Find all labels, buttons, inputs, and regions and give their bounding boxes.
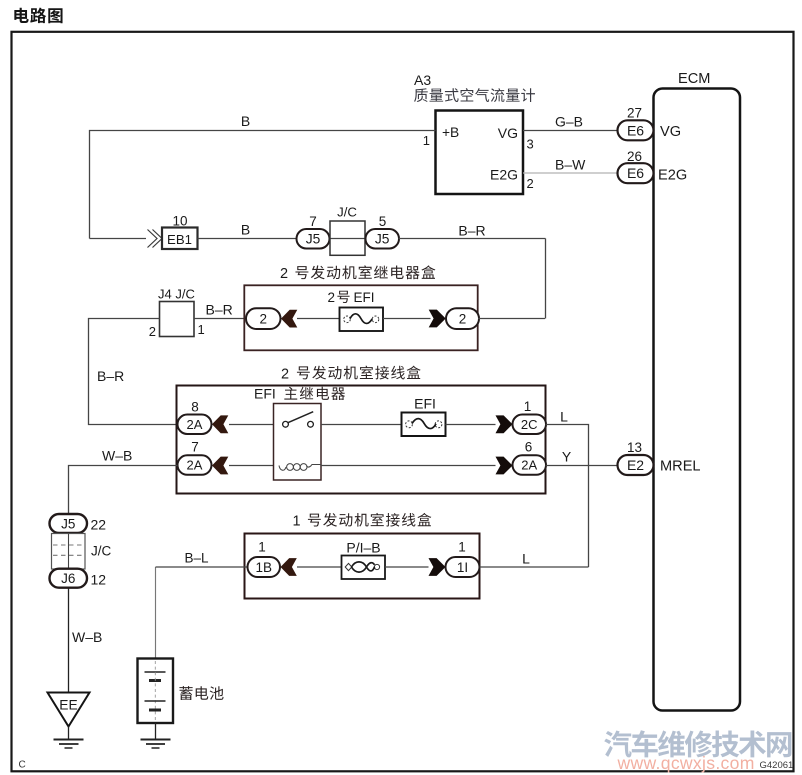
svg-text:EFI: EFI xyxy=(254,386,276,402)
svg-text:2: 2 xyxy=(149,324,156,339)
svg-text:Y: Y xyxy=(562,449,572,465)
svg-text:L: L xyxy=(560,409,568,425)
svg-text:B–L: B–L xyxy=(185,551,210,566)
svg-text:5: 5 xyxy=(379,214,387,229)
svg-text:J6: J6 xyxy=(61,571,75,586)
svg-text:G42061: G42061 xyxy=(760,760,794,771)
svg-text:1: 1 xyxy=(258,540,266,555)
svg-text:J/C: J/C xyxy=(337,205,357,220)
svg-text:26: 26 xyxy=(627,149,642,164)
svg-text:P/I–B: P/I–B xyxy=(346,540,380,556)
svg-text:3: 3 xyxy=(527,137,534,152)
svg-text:B–W: B–W xyxy=(555,157,586,173)
svg-text:VG: VG xyxy=(660,124,681,140)
svg-text:W–B: W–B xyxy=(102,448,132,464)
svg-text:J5: J5 xyxy=(375,232,390,247)
svg-text:12: 12 xyxy=(91,572,107,588)
svg-text:E2G: E2G xyxy=(490,167,518,183)
svg-text:J5: J5 xyxy=(306,232,321,247)
svg-text:2: 2 xyxy=(527,176,534,191)
svg-text:E2: E2 xyxy=(627,457,644,473)
svg-text:2A: 2A xyxy=(187,417,203,432)
svg-text:2: 2 xyxy=(328,290,336,305)
svg-text:G–B: G–B xyxy=(555,114,583,130)
svg-text:E6: E6 xyxy=(627,122,644,138)
svg-text:www.qcwxjs.com: www.qcwxjs.com xyxy=(617,753,755,773)
svg-text:C: C xyxy=(19,760,26,771)
svg-text:1: 1 xyxy=(198,322,205,337)
svg-text:E6: E6 xyxy=(627,165,644,181)
svg-text:1: 1 xyxy=(293,514,301,530)
svg-text:2A: 2A xyxy=(521,458,537,473)
svg-text:B–R: B–R xyxy=(97,368,124,384)
svg-text:2: 2 xyxy=(281,367,289,383)
svg-text:L: L xyxy=(522,551,530,567)
svg-text:W–B: W–B xyxy=(72,629,102,645)
svg-text:J4 J/C: J4 J/C xyxy=(158,287,195,302)
svg-text:B: B xyxy=(241,113,250,129)
svg-text:2: 2 xyxy=(459,312,467,327)
svg-text:+B: +B xyxy=(442,125,459,140)
svg-text:27: 27 xyxy=(627,106,642,121)
svg-text:ECM: ECM xyxy=(678,71,710,87)
svg-text:1I: 1I xyxy=(457,560,468,575)
svg-text:2: 2 xyxy=(280,266,288,282)
svg-text:J5: J5 xyxy=(61,516,75,531)
svg-text:7: 7 xyxy=(191,440,199,455)
svg-text:1: 1 xyxy=(423,133,430,148)
svg-text:8: 8 xyxy=(191,400,199,415)
svg-text:EB1: EB1 xyxy=(167,232,192,247)
svg-text:EE: EE xyxy=(59,698,77,713)
svg-text:1: 1 xyxy=(458,540,466,555)
svg-text:E2G: E2G xyxy=(658,168,687,184)
svg-text:1: 1 xyxy=(524,399,532,414)
svg-text:10: 10 xyxy=(172,214,187,229)
svg-text:MREL: MREL xyxy=(660,459,701,475)
svg-text:B: B xyxy=(241,222,250,238)
svg-text:2: 2 xyxy=(259,312,267,327)
svg-text:2A: 2A xyxy=(187,458,203,473)
svg-text:13: 13 xyxy=(627,440,642,455)
svg-text:A3: A3 xyxy=(414,72,431,88)
svg-text:22: 22 xyxy=(91,517,107,533)
svg-text:B–R: B–R xyxy=(458,223,485,239)
svg-text:1B: 1B xyxy=(256,560,273,575)
svg-text:VG: VG xyxy=(498,125,518,141)
svg-text:2C: 2C xyxy=(521,417,538,432)
svg-text:7: 7 xyxy=(309,214,317,229)
svg-text:B–R: B–R xyxy=(206,302,233,318)
svg-text:J/C: J/C xyxy=(91,544,112,559)
svg-text:EFI: EFI xyxy=(414,396,436,412)
svg-text:EFI: EFI xyxy=(354,290,375,305)
svg-text:6: 6 xyxy=(525,440,533,455)
